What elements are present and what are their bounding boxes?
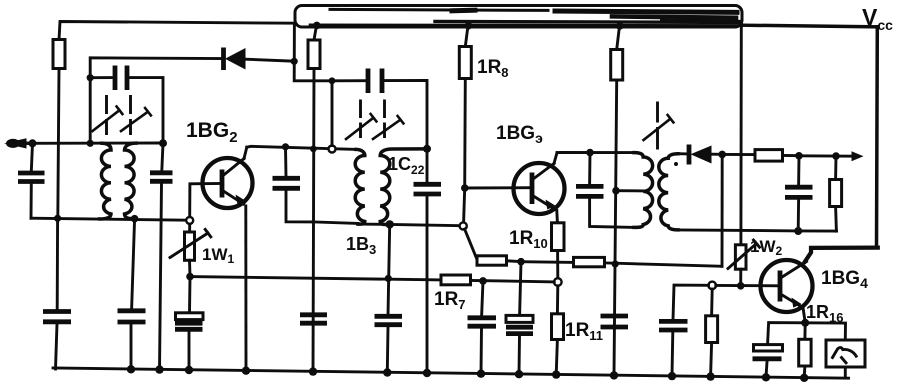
potentiometer 1W2 bbox=[728, 240, 760, 286]
capacitor bias bypass bbox=[468, 281, 497, 374]
wire: to output node bbox=[799, 154, 836, 157]
wire: 1BG2 collector to tank2 bbox=[247, 146, 356, 149]
node: tank1 secondary bottom bbox=[131, 215, 139, 223]
capacitor C (left-most bottom) bbox=[43, 218, 71, 369]
wire: detector to output resistor bbox=[722, 153, 755, 156]
inductor tank1 secondary bbox=[125, 143, 137, 219]
AGC chain: resistor 2 bbox=[574, 257, 723, 266]
output arrow bbox=[836, 155, 853, 158]
node: AGC cap bbox=[517, 258, 525, 266]
capacitor 1BG2 collector bypass bbox=[273, 147, 314, 222]
node: tank1 right top bbox=[159, 139, 167, 147]
svg-text:1R10: 1R10 bbox=[509, 228, 548, 251]
capacitor emitter electrolytic bbox=[753, 345, 783, 377]
wire: emitter net right to earphone bbox=[805, 323, 845, 340]
node: feed3 on AGC line bbox=[612, 260, 619, 267]
node: 1W1 top (open) bbox=[186, 217, 193, 224]
trimmer arrows tank1 bbox=[93, 97, 151, 134]
diode D1 (AGC) bbox=[224, 48, 295, 71]
input terminal arrow bbox=[4, 138, 27, 148]
diode D2 (detector) bbox=[678, 145, 722, 165]
node: collector bypass cap bbox=[282, 143, 289, 150]
node: tap on tank3 primary bbox=[612, 187, 620, 195]
node: feed2 joins tank2 top line bbox=[310, 146, 317, 153]
node: output bbox=[832, 152, 840, 160]
wire: tank1 top line bbox=[33, 142, 164, 145]
ground rail bbox=[53, 368, 849, 378]
wire: 1BG4 emitter down bbox=[803, 308, 805, 323]
node: emitter net bbox=[801, 319, 809, 327]
wire: Vcc vertical down right side bbox=[875, 27, 879, 248]
node: detector output bbox=[718, 151, 726, 159]
inductor tank3 primary bbox=[634, 153, 653, 228]
node: 1BG3 base bbox=[461, 184, 469, 192]
capacitor base electrolytic bbox=[659, 321, 688, 375]
potentiometer 1W1 bbox=[170, 224, 211, 276]
capacitor output filter bbox=[785, 156, 813, 231]
node: 1R7 cap bbox=[479, 277, 487, 285]
wire: base line 1BG4 bbox=[716, 284, 779, 287]
wire: 1BG3 collector line to tank3 bbox=[557, 151, 634, 154]
node: collector cap bbox=[586, 149, 594, 157]
wire: tank2 bottom line bbox=[313, 222, 460, 226]
transistor Q1 1BG2 bbox=[203, 147, 253, 208]
node: output cap bbox=[795, 152, 803, 160]
transistor Q2 1BG3 bbox=[514, 153, 565, 214]
svg-text:1BG4: 1BG4 bbox=[821, 268, 868, 291]
capacitor feed2 bottom bbox=[300, 315, 327, 323]
earphone (output transducer) bbox=[826, 340, 865, 378]
node: bridge-left tee bbox=[329, 77, 336, 84]
inductor tank2 primary bbox=[355, 149, 365, 224]
node: emitter divider (open) bbox=[554, 278, 562, 286]
svg-text:1B3: 1B3 bbox=[346, 234, 376, 257]
wire: tank3 secondary bottom line bbox=[678, 230, 837, 231]
capacitor padder tank1 bbox=[150, 143, 173, 370]
node: on bias line bbox=[385, 275, 392, 282]
AGC chain: resistor 1 bbox=[477, 256, 521, 265]
capacitor AGC electrolytic bbox=[506, 262, 533, 375]
resistor top-left bbox=[53, 40, 65, 219]
wire: detector output down to AGC line bbox=[721, 154, 724, 266]
node: bridge-left on tank1 line bbox=[87, 140, 94, 147]
node: 1BG4 base net (open) bbox=[708, 282, 716, 290]
inductor tank1 primary bbox=[100, 143, 112, 219]
node: left feed joins bottom line bbox=[54, 215, 61, 222]
wire: 1BG3 emitter bbox=[555, 211, 559, 223]
wire: top-left feed from bus to left resistor bbox=[59, 22, 295, 41]
top supply bus bar (thick outlined) bbox=[295, 6, 742, 28]
inductor tank2 secondary bbox=[380, 149, 425, 225]
wire: AGC mid bbox=[521, 260, 574, 264]
node: 1W1 bottom on bias line bbox=[186, 273, 194, 281]
ground rail junction dots bbox=[127, 365, 809, 382]
svg-text:1BGэ: 1BGэ bbox=[496, 123, 543, 146]
wire: base net left to cap bbox=[673, 285, 709, 320]
capacitor 1C22 bbox=[414, 149, 442, 373]
node: bus dot 1R8 bbox=[465, 22, 473, 30]
resistor 1R16 bbox=[799, 323, 811, 378]
node: tank2 right top bbox=[423, 145, 431, 153]
inductor tank3 secondary bbox=[659, 154, 678, 230]
wire: thick bend from Vcc line to 1BG4 collector bbox=[805, 248, 878, 262]
wire: emitter net left bbox=[768, 323, 806, 344]
node: bridge tee on diode-line vertical bbox=[87, 74, 94, 81]
node: filter bottom bbox=[794, 227, 802, 235]
resistor 1R11 bbox=[552, 286, 564, 375]
node: 1W2 bottom on base line bbox=[737, 282, 745, 290]
resistor 1R7 bbox=[441, 275, 554, 285]
svg-text:1R8: 1R8 bbox=[477, 57, 509, 80]
node: input bbox=[29, 139, 37, 147]
node: tank2 bottoms join bbox=[386, 220, 394, 228]
wire: bus right end to Vcc corner bbox=[742, 25, 878, 27]
trimmer arrows tank2 bbox=[346, 101, 403, 139]
bus bar smudge marks bbox=[310, 9, 741, 25]
svg-text:1BG2: 1BG2 bbox=[186, 119, 238, 146]
resistor base lower bbox=[706, 289, 718, 376]
svg-text:1C22: 1C22 bbox=[388, 154, 425, 177]
resistor output load bbox=[830, 156, 842, 231]
svg-text:1W1: 1W1 bbox=[202, 245, 235, 266]
capacitor input (to ground line) bbox=[18, 144, 45, 219]
wire: 1BG2 emitter to ground rail bbox=[244, 206, 247, 371]
trimmer arrow tank3 bbox=[644, 103, 674, 148]
wire: base lead 1BG3 bbox=[465, 186, 531, 189]
wire: tank1 bottom line to 1W1 node bbox=[31, 218, 186, 220]
wire: bus bar left end down to tank2 bridge bbox=[294, 25, 332, 81]
capacitor bridge tank1 bbox=[90, 66, 163, 143]
resistor 1R10 bbox=[552, 223, 565, 279]
node: bus dot feed3 bbox=[616, 22, 624, 30]
stray mark bbox=[674, 162, 678, 166]
wire: tank2 bottom vertical to rail bbox=[388, 224, 390, 315]
resistor feed2 (collector dropper) bbox=[308, 25, 320, 371]
node: bus dot feed2 bbox=[313, 22, 321, 30]
capacitor electrolytic below 1W1 bbox=[175, 277, 203, 371]
svg-text:1R7: 1R7 bbox=[434, 289, 466, 312]
resistor 1R8 bbox=[459, 26, 471, 188]
wire: 1BG2 base lead bbox=[190, 184, 222, 217]
capacitor C2 bottom (tank1 secondary) bbox=[118, 219, 146, 370]
capacitor bridge tank2 bbox=[332, 69, 427, 147]
node: tank2 bridge left (open) bbox=[329, 146, 336, 153]
wire: diagonal into AGC chain bbox=[465, 229, 477, 258]
svg-text:1R11: 1R11 bbox=[565, 320, 603, 343]
wire: base vertical to tank2 return bbox=[464, 188, 465, 223]
node: tank2 return (open) bbox=[460, 222, 467, 229]
capacitor tank3 (across primary) bbox=[576, 153, 634, 228]
wire: tap to coil bbox=[616, 189, 643, 192]
node: diode line meets bus-left vertical bbox=[291, 58, 298, 65]
wire: bus right end down to 1W2 bbox=[739, 27, 742, 245]
wire: AGC diode line left corner bbox=[90, 58, 222, 143]
bias line (1W1 to emitter divider) bbox=[190, 277, 441, 280]
resistor output filter bbox=[755, 150, 799, 162]
svg-text:1W2: 1W2 bbox=[750, 237, 783, 258]
transistor Q3 1BG4 bbox=[761, 260, 813, 312]
capacitor feed3 bottom bbox=[601, 316, 629, 327]
capacitor tank2 bottom bbox=[375, 316, 403, 372]
resistor feed3 bbox=[611, 26, 623, 375]
